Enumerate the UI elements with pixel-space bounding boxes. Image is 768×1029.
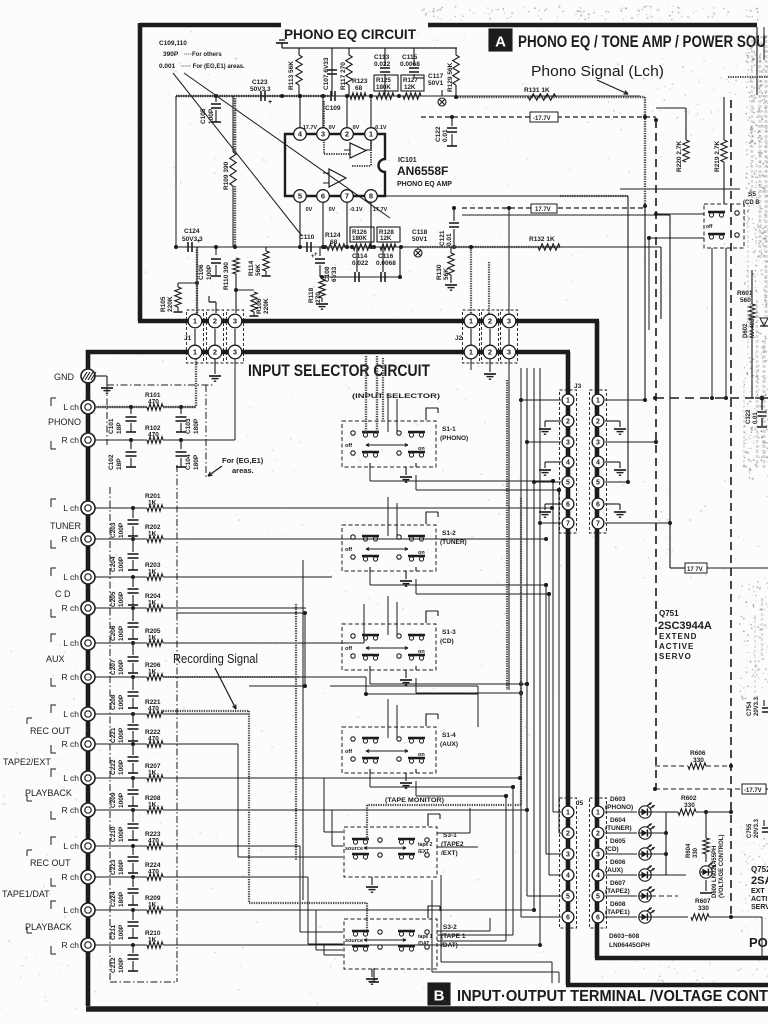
svg-text:6: 6 [596, 502, 600, 509]
svg-text:5: 5 [566, 894, 570, 901]
svg-text:(VOLTAGE CONTROL): (VOLTAGE CONTROL) [719, 835, 725, 898]
svg-text:R604: R604 [686, 843, 692, 858]
svg-text:D603~608: D603~608 [609, 933, 640, 940]
svg-text:100P: 100P [118, 556, 125, 572]
svg-text:5: 5 [298, 192, 302, 201]
svg-text:/EXT): /EXT) [441, 850, 458, 857]
svg-text:-17.7V: -17.7V [533, 116, 551, 122]
svg-text:3: 3 [507, 317, 511, 326]
svg-text:C105: C105 [200, 108, 207, 124]
svg-text:-17.7V: -17.7V [744, 788, 762, 794]
svg-text:220K: 220K [167, 296, 174, 312]
svg-text:R114: R114 [248, 260, 255, 276]
svg-text:R124: R124 [325, 232, 341, 239]
svg-text:POW: POW [749, 935, 768, 950]
svg-text:IC101: IC101 [398, 157, 417, 164]
svg-text:C109,110: C109,110 [159, 40, 187, 47]
svg-text:R130: R130 [436, 264, 443, 280]
svg-text:C222: C222 [110, 759, 117, 775]
svg-text:1: 1 [596, 398, 600, 405]
svg-text:100P: 100P [118, 659, 125, 675]
svg-text:C D: C D [55, 589, 71, 599]
svg-text:PLAYBACK: PLAYBACK [25, 922, 72, 932]
svg-text:2: 2 [213, 348, 217, 357]
svg-text:3: 3 [507, 348, 511, 357]
svg-text:(TUNER): (TUNER) [440, 539, 467, 546]
svg-text:(PHONO): (PHONO) [605, 804, 633, 811]
svg-text:0V: 0V [306, 207, 313, 213]
svg-text:REC OUT: REC OUT [30, 858, 71, 868]
svg-text:R118: R118 [308, 287, 315, 303]
svg-text:C223: C223 [110, 859, 117, 875]
svg-text:2: 2 [488, 317, 492, 326]
svg-text:C110: C110 [299, 234, 315, 241]
svg-text:areas.: areas. [232, 466, 254, 475]
svg-text:+: + [197, 239, 201, 245]
svg-text:C209: C209 [110, 792, 117, 808]
svg-text:(PHONO): (PHONO) [440, 435, 468, 442]
svg-text:68: 68 [355, 85, 363, 92]
svg-text:5: 5 [596, 894, 600, 901]
svg-text:(CD): (CD) [605, 846, 619, 853]
svg-text:4: 4 [566, 873, 570, 880]
svg-text:0.01: 0.01 [442, 129, 449, 142]
svg-text:C207: C207 [110, 659, 117, 675]
svg-text:on: on [418, 752, 425, 758]
svg-text:C212: C212 [110, 957, 117, 973]
svg-text:6: 6 [596, 915, 600, 922]
svg-text:R ch: R ch [62, 603, 80, 613]
svg-text:For (EG,E1): For (EG,E1) [222, 456, 264, 465]
svg-text:100P: 100P [118, 957, 125, 973]
svg-text:6: 6 [566, 915, 570, 922]
svg-text:7: 7 [596, 521, 600, 528]
svg-text:56K: 56K [443, 268, 450, 280]
svg-text:-17.7V: -17.7V [301, 125, 318, 131]
svg-text:20V3.3: 20V3.3 [754, 818, 760, 838]
svg-text:1: 1 [193, 348, 197, 357]
svg-text:1: 1 [193, 317, 197, 326]
svg-text:-0.1V: -0.1V [349, 207, 362, 213]
svg-text:7: 7 [345, 192, 349, 201]
svg-text:SERVO: SERVO [659, 652, 692, 661]
svg-text:(TAPE MONITOR): (TAPE MONITOR) [385, 798, 444, 804]
svg-text:C221: C221 [110, 727, 117, 743]
svg-text:2: 2 [488, 348, 492, 357]
svg-text:3: 3 [566, 852, 570, 859]
svg-text:2: 2 [345, 130, 349, 139]
svg-text:EXT: EXT [751, 888, 765, 895]
svg-text:(TAPE1): (TAPE1) [605, 909, 630, 916]
svg-text:L ch: L ch [63, 402, 79, 412]
svg-text:3: 3 [596, 852, 600, 859]
svg-text:180K: 180K [376, 84, 391, 91]
svg-text:GND: GND [54, 372, 75, 382]
svg-text:on: on [418, 446, 425, 452]
svg-text:LN06445GPH: LN06445GPH [609, 942, 650, 949]
svg-text:D608: D608 [610, 901, 626, 908]
svg-text:C204: C204 [110, 556, 117, 572]
svg-text:L ch: L ch [63, 638, 79, 648]
svg-text:S1-4: S1-4 [442, 732, 456, 739]
svg-text:R220 2.7K: R220 2.7K [676, 141, 683, 172]
svg-text:5: 5 [596, 480, 600, 487]
svg-text:56K: 56K [255, 264, 262, 276]
svg-text:20V3.3: 20V3.3 [754, 696, 760, 716]
svg-text:180P: 180P [193, 418, 200, 434]
svg-text:TAPE2/EXT: TAPE2/EXT [3, 757, 51, 767]
svg-text:C109: C109 [325, 105, 341, 112]
svg-text:0.0068: 0.0068 [376, 260, 396, 267]
svg-text:L ch: L ch [63, 572, 79, 582]
svg-text:R109 390: R109 390 [223, 161, 230, 190]
svg-text:D603: D603 [610, 796, 626, 803]
svg-text:R219 2.7K: R219 2.7K [714, 141, 721, 172]
svg-text:4: 4 [596, 460, 600, 467]
svg-text:C116: C116 [378, 253, 394, 260]
svg-text:R113 56K: R113 56K [288, 61, 295, 90]
svg-text:4: 4 [566, 460, 570, 467]
svg-text:off: off [345, 749, 352, 755]
svg-text:R ch: R ch [62, 805, 80, 815]
svg-text:1: 1 [596, 810, 600, 817]
svg-text:L ch: L ch [63, 503, 79, 513]
svg-text:C754: C754 [747, 701, 753, 716]
svg-text:S1-2: S1-2 [442, 530, 456, 537]
svg-text:off: off [706, 224, 713, 230]
svg-text:tape 2: tape 2 [418, 842, 433, 848]
svg-text:ACTI: ACTI [751, 896, 767, 903]
svg-text:R132 1K: R132 1K [529, 236, 555, 243]
svg-text:C121: C121 [439, 230, 446, 246]
svg-text:2SA: 2SA [751, 875, 768, 887]
svg-text:D609 LN021455PH: D609 LN021455PH [712, 846, 718, 898]
svg-text:L ch: L ch [63, 773, 79, 783]
svg-text:L ch: L ch [63, 905, 79, 915]
svg-text:J2: J2 [455, 335, 463, 342]
svg-text:off: off [345, 443, 352, 449]
svg-text:R110 390: R110 390 [223, 262, 230, 290]
svg-text:330: 330 [693, 757, 704, 764]
svg-text:on: on [418, 649, 425, 655]
svg-text:R ch: R ch [62, 940, 80, 950]
svg-text:180P: 180P [118, 891, 125, 907]
svg-text:C113: C113 [374, 54, 390, 61]
svg-text:R606: R606 [690, 750, 706, 757]
svg-text:100P: 100P [118, 924, 125, 940]
svg-text:0.01: 0.01 [446, 233, 453, 246]
svg-text:D605: D605 [610, 838, 626, 845]
svg-text:3: 3 [233, 348, 237, 357]
svg-text:100P: 100P [118, 792, 125, 808]
svg-text:C205: C205 [110, 591, 117, 607]
svg-text:0.022: 0.022 [374, 61, 391, 68]
svg-text:3: 3 [321, 130, 325, 139]
svg-text:B: B [434, 988, 445, 1005]
svg-text:C118: C118 [412, 229, 428, 236]
svg-text:source: source [345, 846, 363, 852]
svg-text:D607: D607 [610, 880, 626, 887]
svg-text:220K: 220K [263, 298, 270, 314]
svg-text:180P: 180P [118, 859, 125, 875]
svg-text:····For others: ····For others [184, 52, 222, 58]
svg-text:C224: C224 [110, 891, 117, 907]
svg-text:tape 1: tape 1 [418, 934, 433, 940]
svg-text:C102: C102 [108, 454, 115, 470]
svg-text:D606: D606 [610, 859, 626, 866]
svg-text:C101: C101 [108, 418, 115, 434]
svg-text:TUNER: TUNER [50, 521, 81, 531]
svg-text:MA4033: MA4033 [750, 315, 756, 338]
svg-text:/EXT: /EXT [418, 849, 429, 855]
svg-text:+: + [314, 252, 318, 258]
svg-text:+: + [311, 254, 315, 260]
svg-text:ACTIVE: ACTIVE [659, 642, 694, 651]
svg-text:100P: 100P [206, 264, 213, 280]
svg-text:R ch: R ch [62, 739, 80, 749]
svg-text:R ch: R ch [62, 534, 80, 544]
svg-text:4: 4 [596, 873, 600, 880]
svg-text:C203: C203 [110, 522, 117, 538]
svg-text:C117: C117 [428, 73, 444, 80]
svg-text:Q751: Q751 [659, 609, 679, 618]
svg-text:(CD B: (CD B [743, 200, 760, 206]
svg-text:C104: C104 [185, 454, 192, 470]
svg-text:2SC3944A: 2SC3944A [658, 620, 712, 632]
svg-text:68: 68 [330, 239, 338, 246]
svg-text:C114: C114 [352, 253, 368, 260]
svg-text:R125: R125 [376, 77, 391, 84]
svg-text:100P: 100P [118, 591, 125, 607]
svg-text:100P: 100P [118, 759, 125, 775]
svg-text:(TUNER): (TUNER) [605, 825, 632, 832]
svg-text:L ch: L ch [63, 841, 79, 851]
svg-text:AN6558F: AN6558F [397, 164, 448, 178]
svg-text:0.001: 0.001 [159, 63, 176, 70]
svg-text:100P: 100P [118, 522, 125, 538]
svg-text:(TAPE 1: (TAPE 1 [441, 933, 466, 940]
svg-text:off: off [345, 646, 352, 652]
svg-text:C206: C206 [110, 625, 117, 641]
svg-text:R129 56K: R129 56K [447, 62, 454, 92]
svg-text:J3: J3 [574, 383, 582, 390]
svg-text:18P: 18P [116, 422, 123, 434]
svg-text:1: 1 [566, 398, 570, 405]
svg-text:3: 3 [566, 440, 570, 447]
svg-text:390P: 390P [163, 51, 179, 58]
svg-text:R123: R123 [352, 78, 368, 85]
svg-text:50V1: 50V1 [412, 236, 428, 243]
svg-text:180P: 180P [193, 454, 200, 470]
svg-text:3: 3 [596, 440, 600, 447]
svg-text:50V3.3: 50V3.3 [250, 86, 271, 93]
svg-text:6V33: 6V33 [331, 266, 338, 282]
svg-text:off: off [345, 547, 352, 553]
svg-text:(CD): (CD) [440, 638, 454, 645]
svg-text:/DAT: /DAT [418, 941, 429, 947]
svg-text:S1-3: S1-3 [442, 629, 456, 636]
svg-text:0V: 0V [353, 125, 360, 131]
svg-text:C124: C124 [184, 228, 200, 235]
svg-text:6: 6 [321, 192, 325, 201]
svg-text:····· For (EG,E1) areas.: ····· For (EG,E1) areas. [181, 64, 245, 70]
svg-text:1: 1 [469, 317, 473, 326]
svg-text:S1-1: S1-1 [442, 426, 456, 433]
svg-text:C211: C211 [110, 924, 117, 940]
svg-text:REC OUT: REC OUT [30, 726, 71, 736]
svg-text:180K: 180K [352, 235, 367, 242]
svg-text:R131 1K: R131 1K [524, 87, 550, 94]
svg-text:SERV: SERV [751, 904, 768, 911]
svg-text:100P: 100P [118, 694, 125, 710]
svg-text:17 7V: 17 7V [687, 567, 703, 573]
svg-text:Recording Signal: Recording Signal [173, 651, 258, 666]
svg-text:17.7V: 17.7V [535, 207, 551, 213]
svg-text:270: 270 [315, 292, 322, 303]
svg-text:0.022: 0.022 [352, 260, 369, 267]
svg-text:12K: 12K [404, 84, 416, 91]
svg-text:5: 5 [566, 480, 570, 487]
svg-text:INPUT·OUTPUT TERMINAL /VOLTAGE: INPUT·OUTPUT TERMINAL /VOLTAGE CONT [457, 988, 768, 1005]
svg-text:2: 2 [596, 419, 600, 426]
svg-text:18P: 18P [116, 458, 123, 470]
svg-text:INPUT SELECTOR CIRCUIT: INPUT SELECTOR CIRCUIT [248, 362, 430, 380]
svg-text:J1: J1 [184, 335, 192, 342]
svg-text:100P: 100P [118, 826, 125, 842]
svg-text:(TAPE2): (TAPE2) [605, 888, 630, 895]
svg-text:R602: R602 [681, 795, 697, 802]
svg-text:L ch: L ch [63, 709, 79, 719]
svg-text:50V1: 50V1 [428, 80, 444, 87]
svg-text:R106: R106 [256, 298, 263, 314]
svg-text:R ch: R ch [62, 435, 80, 445]
svg-text:(AUX): (AUX) [605, 867, 623, 874]
svg-text:Phono Signal (Lch): Phono Signal (Lch) [531, 64, 664, 80]
svg-text:7: 7 [566, 521, 570, 528]
svg-text:3: 3 [233, 317, 237, 326]
svg-text:6: 6 [566, 502, 570, 509]
svg-text:R105: R105 [160, 296, 167, 312]
svg-text:330: 330 [698, 905, 709, 912]
svg-text:+: + [268, 99, 272, 106]
svg-text:1: 1 [566, 810, 570, 817]
svg-text:C122: C122 [435, 126, 442, 142]
svg-text:J5: J5 [576, 800, 584, 807]
svg-text:0V: 0V [329, 125, 336, 131]
svg-text:PHONO EQ AMP: PHONO EQ AMP [397, 181, 452, 188]
svg-text:D604: D604 [610, 817, 626, 824]
svg-text:1: 1 [369, 130, 373, 139]
svg-text:PHONO: PHONO [48, 417, 81, 427]
svg-text:2: 2 [596, 831, 600, 838]
svg-text:C208: C208 [110, 694, 117, 710]
svg-text:EXTEND: EXTEND [659, 632, 697, 641]
svg-text:330: 330 [693, 847, 699, 858]
svg-text:on: on [418, 550, 425, 556]
svg-text:8: 8 [369, 192, 373, 201]
svg-text:PHONO EQ CIRCUIT: PHONO EQ CIRCUIT [284, 26, 416, 42]
svg-text:R607: R607 [695, 898, 711, 905]
svg-text:R117 270: R117 270 [340, 62, 347, 90]
svg-text:2: 2 [566, 831, 570, 838]
svg-text:R ch: R ch [62, 872, 80, 882]
svg-text:C210: C210 [110, 826, 117, 842]
svg-text:1: 1 [469, 348, 473, 357]
svg-text:TAPE1/DAT: TAPE1/DAT [2, 889, 50, 899]
svg-text:-0.1V: -0.1V [373, 125, 386, 131]
svg-text:0V: 0V [329, 207, 336, 213]
svg-text:(AUX): (AUX) [440, 741, 458, 748]
svg-text:C107 6V33: C107 6V33 [323, 57, 330, 90]
svg-text:100P: 100P [118, 727, 125, 743]
svg-text:C115: C115 [402, 54, 418, 61]
svg-text:PLAYBACK: PLAYBACK [25, 788, 72, 798]
svg-text:12K: 12K [380, 235, 392, 242]
svg-text:C123: C123 [252, 79, 268, 86]
svg-text:17.7V: 17.7V [373, 207, 388, 213]
svg-text:C103: C103 [185, 418, 192, 434]
svg-text:100P: 100P [118, 625, 125, 641]
svg-text:2: 2 [566, 419, 570, 426]
svg-text:100P: 100P [208, 108, 215, 124]
svg-text:source: source [345, 938, 363, 944]
svg-text:AUX: AUX [46, 654, 65, 664]
svg-text:R ch: R ch [62, 672, 80, 682]
svg-text:A: A [495, 34, 506, 51]
svg-text:S3-2: S3-2 [443, 924, 457, 931]
